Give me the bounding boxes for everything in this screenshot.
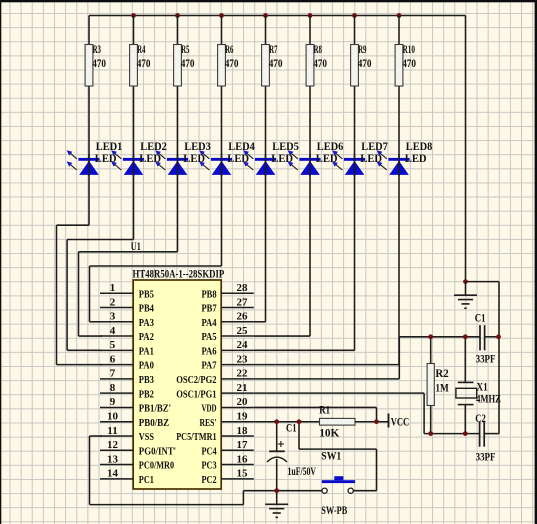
svg-text:R7: R7 — [269, 42, 277, 56]
svg-text:PA3: PA3 — [139, 317, 155, 329]
svg-text:10K: 10K — [319, 426, 340, 440]
svg-text:33PF: 33PF — [476, 351, 496, 365]
svg-text:C2: C2 — [475, 411, 486, 425]
svg-text:27: 27 — [237, 296, 249, 308]
svg-text:R10: R10 — [403, 42, 415, 56]
svg-text:470: 470 — [181, 56, 195, 70]
svg-text:22: 22 — [237, 368, 249, 380]
svg-text:PB8: PB8 — [201, 288, 217, 300]
svg-text:R9: R9 — [358, 42, 366, 56]
svg-text:VDD: VDD — [201, 403, 216, 415]
svg-text:R1: R1 — [319, 403, 330, 417]
svg-text:R8: R8 — [314, 42, 322, 56]
svg-text:3: 3 — [110, 311, 116, 323]
svg-text:PB7: PB7 — [201, 303, 217, 315]
svg-text:PA0: PA0 — [139, 360, 155, 372]
svg-text:14: 14 — [107, 468, 119, 480]
svg-text:18: 18 — [237, 425, 249, 437]
svg-text:470: 470 — [402, 56, 416, 70]
svg-text:28: 28 — [237, 282, 249, 294]
svg-text:6: 6 — [110, 353, 116, 365]
svg-text:VCC: VCC — [391, 415, 410, 429]
svg-text:VSS: VSS — [139, 431, 154, 443]
svg-text:HT48R50A-1--28SKDIP: HT48R50A-1--28SKDIP — [133, 267, 225, 281]
svg-text:PC2: PC2 — [201, 474, 217, 486]
svg-text:PB1/BZ': PB1/BZ' — [139, 403, 171, 415]
svg-text:PC0/MR0: PC0/MR0 — [139, 460, 175, 472]
svg-text:2: 2 — [110, 296, 116, 308]
svg-text:15: 15 — [237, 468, 249, 480]
svg-text:16: 16 — [237, 453, 249, 465]
svg-text:20: 20 — [237, 396, 249, 408]
svg-text:R6: R6 — [225, 42, 233, 56]
svg-text:PB0/BZ: PB0/BZ — [139, 417, 169, 429]
svg-text:470: 470 — [92, 56, 106, 70]
svg-text:21: 21 — [237, 382, 248, 394]
svg-text:5: 5 — [110, 339, 116, 351]
svg-text:PA5: PA5 — [201, 331, 217, 343]
svg-text:25: 25 — [237, 325, 249, 337]
svg-text:PC4: PC4 — [201, 445, 217, 457]
svg-text:17: 17 — [237, 439, 249, 451]
svg-text:4MHZ: 4MHZ — [476, 391, 501, 405]
svg-text:12: 12 — [107, 439, 119, 451]
svg-text:PC5/TMR1: PC5/TMR1 — [176, 431, 216, 443]
svg-text:470: 470 — [137, 56, 151, 70]
svg-text:U1: U1 — [131, 239, 141, 253]
svg-text:470: 470 — [358, 56, 372, 70]
svg-text:470: 470 — [225, 56, 239, 70]
svg-text:R2: R2 — [435, 366, 448, 380]
svg-text:PA4: PA4 — [201, 317, 217, 329]
svg-text:PB5: PB5 — [139, 288, 155, 300]
svg-text:4: 4 — [110, 325, 116, 337]
svg-text:1M: 1M — [435, 381, 448, 395]
svg-text:19: 19 — [237, 411, 249, 423]
svg-text:C1: C1 — [286, 420, 297, 434]
svg-text:10: 10 — [107, 411, 119, 423]
svg-text:9: 9 — [110, 396, 116, 408]
svg-text:R5: R5 — [181, 42, 189, 56]
svg-text:R4: R4 — [137, 42, 145, 56]
svg-text:1: 1 — [110, 282, 116, 294]
svg-text:PA7: PA7 — [201, 360, 217, 372]
svg-text:PA2: PA2 — [139, 331, 155, 343]
svg-text:PC3: PC3 — [201, 460, 217, 472]
svg-text:PG0/INT': PG0/INT' — [139, 445, 176, 457]
svg-text:23: 23 — [237, 353, 249, 365]
svg-text:PC1: PC1 — [139, 474, 154, 486]
svg-text:SW1: SW1 — [321, 449, 341, 463]
svg-text:PB3: PB3 — [139, 374, 155, 386]
svg-text:RES': RES' — [199, 417, 216, 429]
svg-text:24: 24 — [237, 339, 249, 351]
svg-text:470: 470 — [269, 56, 283, 70]
svg-text:PB2: PB2 — [139, 388, 155, 400]
svg-text:PA1: PA1 — [139, 345, 154, 357]
svg-text:26: 26 — [237, 311, 249, 323]
svg-text:13: 13 — [107, 453, 119, 465]
svg-text:SW-PB: SW-PB — [321, 503, 347, 517]
svg-text:OSC2/PG2: OSC2/PG2 — [176, 374, 217, 386]
svg-text:PA6: PA6 — [201, 345, 217, 357]
svg-text:1uF/50V: 1uF/50V — [288, 464, 317, 478]
svg-text:11: 11 — [107, 425, 117, 437]
svg-text:8: 8 — [110, 382, 116, 394]
svg-text:470: 470 — [313, 56, 327, 70]
svg-text:LED: LED — [405, 151, 427, 165]
svg-text:OSC1/PG1: OSC1/PG1 — [176, 388, 216, 400]
svg-text:7: 7 — [110, 368, 116, 380]
svg-text:C1: C1 — [475, 311, 486, 325]
svg-text:33PF: 33PF — [476, 450, 496, 464]
svg-text:PB4: PB4 — [139, 303, 155, 315]
svg-text:R3: R3 — [93, 42, 101, 56]
